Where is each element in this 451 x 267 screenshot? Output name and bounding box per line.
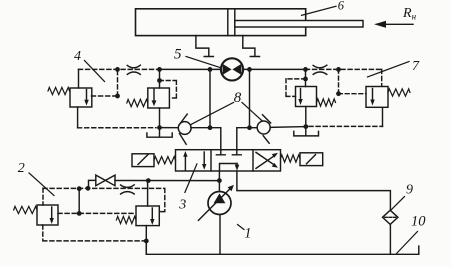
pilot dashed of valve 4 left	[92, 69, 118, 96]
solenoid left of valve 3	[132, 154, 154, 167]
orifice (group 2)	[121, 185, 135, 194]
group 4: top dashed pilot line	[79, 68, 160, 70]
wire: left throttle to node	[191, 127, 210, 129]
drain dashed group 4	[78, 127, 156, 129]
drain dashed group 7	[309, 125, 383, 127]
solenoid right of valve 3	[300, 153, 323, 166]
cylinder piston	[227, 9, 229, 36]
cylinder rod	[235, 21, 363, 28]
cylinder left port pipe (plugged)	[196, 36, 214, 57]
svg-text:6: 6	[338, 0, 345, 13]
junction: group 2 drain node	[144, 239, 149, 244]
valve 7 right (relief)	[366, 87, 388, 108]
spring of valve 7 left	[317, 99, 336, 106]
tank (group 4)	[147, 133, 172, 137]
valve 2 left (relief)	[37, 205, 58, 225]
pilot dashed of valve 4 right	[160, 81, 177, 99]
spring of valve 4 right	[127, 99, 148, 106]
svg-text:5: 5	[174, 47, 182, 63]
flow divider 5	[221, 58, 243, 80]
junction: valve 2 right supply tap	[146, 178, 151, 183]
wire: right throttle to right tank node	[270, 126, 306, 129]
spring right of valve 3	[281, 155, 301, 162]
svg-text:10: 10	[411, 214, 426, 230]
junction: throttle 8 right to port B	[247, 125, 252, 130]
wire: node to right throttle	[250, 127, 258, 129]
valve 4 left (relief)	[70, 88, 92, 107]
pilot dashed middle (group 2)	[58, 212, 136, 214]
valve 7 left (relief)	[296, 87, 317, 107]
pump 1 (variable displacement)	[198, 185, 234, 221]
wire: valve 2 right bottom to tank line	[145, 226, 147, 255]
spring of valve 4 left	[48, 87, 70, 94]
junction: valve 4 left pilot top	[115, 67, 120, 72]
leader 8 to right throttle	[242, 103, 262, 121]
leader 1	[238, 225, 245, 230]
valve 4 right (relief)	[148, 88, 170, 108]
svg-text:Rн: Rн	[402, 6, 417, 22]
svg-text:2: 2	[18, 161, 25, 176]
wire: tank node to left throttle	[160, 127, 179, 129]
leader 7	[368, 62, 410, 78]
junction: line B tap	[247, 67, 252, 72]
tank line 10	[146, 241, 419, 254]
valve 2 right (relief)	[136, 206, 159, 226]
svg-text:7: 7	[412, 59, 420, 74]
svg-text:4: 4	[74, 49, 81, 64]
junction: group 2 pilot riser bottom	[77, 211, 82, 216]
wire: left vertical to valve 3 port A	[210, 69, 221, 149]
valve 3 directional body	[176, 150, 281, 171]
leader 5	[186, 57, 222, 69]
pilot dashed of valve 7 left	[286, 79, 306, 97]
tank (group 7)	[294, 131, 319, 136]
pilot dashed: valve 2 left top pipe	[42, 188, 44, 205]
svg-text:3: 3	[178, 198, 186, 213]
wire: right vertical to valve 3 port B	[237, 69, 250, 149]
spring of valve 7 right	[388, 89, 410, 96]
leader 3	[185, 164, 197, 192]
valve 3 left position arrows	[183, 151, 206, 171]
wire: valve 3 T port return line	[237, 171, 391, 210]
junction: valve 7 right pilot corner	[336, 91, 341, 96]
wire: valve 7 left drain to tank	[305, 107, 307, 136]
pilot dashed top (group 2)	[43, 188, 165, 211]
orifice (group 4)	[127, 65, 140, 74]
cylinder C6 body	[136, 9, 306, 36]
throttle 8 right	[257, 115, 271, 144]
spring left of valve 3	[154, 157, 175, 164]
leader 6	[302, 6, 337, 15]
load force arrow Rн	[374, 21, 413, 28]
leader 10	[397, 232, 418, 254]
junction: tank node right	[303, 124, 308, 129]
wire: valve 7 right drain	[382, 107, 384, 126]
leader 4	[85, 61, 105, 82]
valve 3 right position cross arrows	[256, 152, 278, 168]
valve 3 centre position closed ports	[216, 150, 241, 155]
wire: valve 4 left top pipe	[78, 69, 80, 88]
junction: valve 4 left pilot corner	[115, 94, 120, 99]
orifice (group 7)	[313, 65, 327, 74]
leader 9	[392, 197, 405, 210]
junction: valve 7 left pilot tap	[303, 77, 308, 82]
throttle 8 left	[178, 114, 191, 144]
wire: pump outlet	[218, 181, 220, 192]
wire: valve 7 left top pipe	[305, 69, 307, 86]
junction: valve 4 right riser	[157, 67, 162, 72]
junction: shut-off valve tap	[86, 186, 91, 191]
spring of valve 2 right	[116, 216, 136, 223]
junction: group 2 pilot riser top	[77, 186, 82, 191]
filter 9	[383, 210, 398, 224]
wire: valve 2 right top pipe	[147, 181, 149, 206]
junction: pump outlet node	[217, 178, 222, 183]
valve 3 centre bypass	[220, 164, 240, 172]
wire: pilot riser (group 2)	[78, 189, 80, 214]
pilot dashed of valve 7 right	[339, 69, 367, 93]
wire: pressure line to group 2	[115, 180, 219, 182]
shut-off valve (group 2)	[89, 175, 116, 188]
leader 2	[29, 173, 54, 196]
wire: main line A-B	[160, 68, 306, 70]
wire: valve 4 right drain to tank	[159, 108, 161, 137]
svg-text:1: 1	[244, 226, 251, 242]
drain dashed (group 2)	[43, 225, 144, 241]
cylinder right port pipe (plugged)	[243, 36, 260, 57]
wire: valve 4 left drain	[77, 107, 79, 128]
junction: valve 4 right pilot tap	[157, 78, 162, 83]
junction: line A tap	[208, 67, 213, 72]
group 7: top dashed pilot line	[306, 69, 382, 86]
svg-text:8: 8	[234, 90, 242, 106]
svg-text:9: 9	[406, 183, 413, 198]
junction: valve 7 right pilot top	[336, 67, 341, 72]
wire: valve 4 right top pipe	[159, 69, 161, 88]
spring of valve 2 left	[14, 206, 37, 213]
junction: throttle 8 left to port A	[208, 125, 213, 130]
wire: pump suction	[219, 215, 221, 255]
junction: tank node left	[157, 125, 162, 130]
wire: valve 3 P port to pump node	[218, 171, 220, 181]
wire: filter to tank line	[389, 224, 391, 254]
leader 8 to left throttle	[186, 103, 234, 128]
junction: valve 7 left riser	[303, 67, 308, 72]
